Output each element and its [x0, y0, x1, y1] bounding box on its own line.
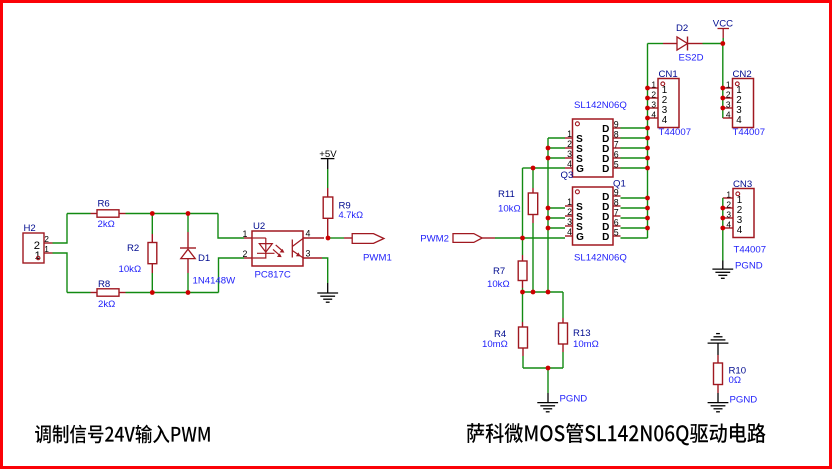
node Q3.2: [546, 146, 551, 151]
svg-text:PWM2: PWM2: [420, 234, 449, 245]
wire S bus: [548, 138, 565, 292]
svg-text:CN2: CN2: [733, 69, 752, 80]
svg-text:SL142N06Q: SL142N06Q: [574, 100, 627, 111]
svg-text:0Ω: 0Ω: [729, 375, 742, 386]
svg-text:8: 8: [614, 198, 619, 208]
svg-text:D: D: [602, 232, 609, 243]
svg-text:3: 3: [651, 100, 656, 110]
svg-text:10kΩ: 10kΩ: [498, 204, 521, 215]
wire VCC to CN2: [722, 44, 724, 119]
svg-text:PC817C: PC817C: [255, 270, 291, 281]
svg-text:6: 6: [614, 150, 619, 160]
connector CN2: [723, 69, 765, 138]
ground PGND2: [712, 261, 762, 279]
svg-text:CN1: CN1: [659, 69, 678, 80]
svg-text:2: 2: [567, 139, 572, 149]
svg-text:1N4148W: 1N4148W: [193, 276, 237, 287]
node Q3 drain 158: [645, 156, 650, 161]
power VCC: [713, 19, 733, 44]
op-amp U2 optocoupler PC817C: [242, 221, 324, 281]
svg-text:9: 9: [614, 120, 619, 130]
svg-text:U2: U2: [253, 221, 265, 232]
svg-text:10kΩ: 10kΩ: [119, 264, 142, 275]
svg-text:1: 1: [567, 129, 572, 139]
node rail R7: [520, 290, 525, 295]
svg-text:3: 3: [726, 100, 731, 110]
svg-text:4: 4: [736, 115, 742, 126]
svg-text:4: 4: [651, 110, 656, 120]
svg-text:2kΩ: 2kΩ: [98, 219, 115, 230]
node Q3 drain 138: [645, 136, 650, 141]
wire G link: [523, 168, 566, 238]
svg-text:3: 3: [726, 210, 731, 220]
node rail R11: [531, 290, 536, 295]
connector H2: [23, 223, 53, 263]
svg-text:7: 7: [614, 140, 619, 150]
svg-text:4.7kΩ: 4.7kΩ: [339, 210, 364, 220]
svg-text:H2: H2: [24, 223, 36, 234]
transistor Q3: [561, 100, 627, 181]
transistor Q1: [565, 178, 627, 263]
svg-text:2: 2: [567, 207, 572, 217]
ground GND: [317, 283, 338, 302]
node CN1.98: [645, 96, 650, 101]
node CN2.88: [720, 86, 725, 91]
svg-text:CN3: CN3: [733, 179, 752, 190]
node Q1.1: [546, 206, 551, 211]
svg-text:3: 3: [567, 217, 572, 227]
resistor R6: [91, 199, 126, 231]
svg-text:4: 4: [567, 227, 572, 237]
port PWM1: [352, 234, 392, 264]
wire H2.2 to top rail: [53, 214, 68, 244]
svg-text:R13: R13: [573, 328, 591, 339]
diode D1: [180, 214, 236, 293]
svg-text:T44007: T44007: [734, 244, 767, 255]
node Q3 drain 168: [645, 166, 650, 171]
diode D2: [648, 23, 723, 64]
svg-text:4: 4: [726, 220, 731, 230]
svg-text:10mΩ: 10mΩ: [573, 339, 599, 350]
resistor R4: [482, 292, 528, 368]
svg-text:2kΩ: 2kΩ: [98, 299, 115, 310]
node bottom-rail R2: [150, 290, 155, 295]
svg-text:10mΩ: 10mΩ: [482, 339, 508, 350]
node CN1.88: [645, 86, 650, 91]
node CN2.108: [720, 106, 725, 111]
resistor R2: [119, 214, 157, 293]
svg-text:4: 4: [306, 229, 311, 239]
svg-text:4: 4: [662, 115, 668, 126]
ground PGND3 top: [708, 334, 729, 355]
node gate G1: [520, 236, 525, 241]
wire H2.1 to bottom rail: [53, 253, 68, 293]
svg-text:D1: D1: [198, 253, 210, 264]
svg-text:8: 8: [614, 130, 619, 140]
svg-text:T44007: T44007: [733, 127, 766, 138]
svg-text:Q3: Q3: [561, 170, 574, 181]
svg-text:1: 1: [242, 229, 247, 239]
wire D bus: [621, 44, 648, 239]
wire rail to U2.2: [219, 258, 245, 293]
svg-text:2: 2: [726, 90, 731, 100]
svg-text:R7: R7: [493, 266, 505, 277]
wire U2.3 to GND: [322, 258, 328, 283]
connector CN1: [648, 69, 692, 138]
ground PGND1: [537, 368, 587, 412]
svg-text:ES2D: ES2D: [679, 52, 704, 63]
node Q1 drain 228: [645, 226, 650, 231]
wire top rail: [67, 213, 218, 215]
svg-text:G: G: [576, 164, 584, 175]
svg-text:2: 2: [651, 90, 656, 100]
caption 调制信号24V输入PWM: [35, 425, 210, 444]
svg-text:4: 4: [726, 110, 731, 120]
node shunt gnd: [546, 366, 551, 371]
node CN2.98: [720, 96, 725, 101]
svg-text:2: 2: [726, 200, 731, 210]
node Q1 drain 208: [645, 206, 650, 211]
node CN3.228: [720, 226, 725, 231]
svg-text:3: 3: [306, 249, 311, 259]
resistor R7: [487, 238, 527, 292]
svg-text:R8: R8: [98, 279, 110, 290]
svg-text:1: 1: [651, 80, 656, 90]
svg-text:3: 3: [567, 149, 572, 159]
resistor R9: [323, 188, 363, 238]
node Q3 drain 128: [645, 126, 650, 131]
node Q3.3: [546, 156, 551, 161]
svg-text:PGND: PGND: [560, 394, 588, 405]
node CN1.108: [645, 106, 650, 111]
wire shunt bottom: [523, 367, 563, 369]
node CN3.208: [720, 206, 725, 211]
svg-text:PGND: PGND: [730, 394, 758, 405]
svg-text:D: D: [602, 164, 609, 175]
svg-text:2: 2: [242, 249, 247, 259]
node top-rail D1: [186, 211, 191, 216]
svg-text:PWM1: PWM1: [363, 252, 392, 263]
node PWM1 junction: [326, 236, 331, 241]
svg-text:SL142N06Q: SL142N06Q: [574, 252, 627, 263]
svg-text:T44007: T44007: [659, 127, 692, 138]
svg-text:Q1: Q1: [613, 178, 626, 189]
power +5V: [319, 149, 337, 188]
node CN1.118: [645, 116, 650, 121]
wire rail to U2.1: [218, 214, 244, 239]
resistor R13: [559, 292, 599, 368]
wire to PWM1: [330, 237, 353, 239]
svg-text:R11: R11: [498, 189, 515, 200]
node Q1.3: [546, 226, 551, 231]
node bottom-rail D1: [186, 290, 191, 295]
wire PWM2 to Q1.4: [495, 237, 565, 239]
svg-text:5: 5: [614, 228, 619, 238]
svg-text:1: 1: [726, 80, 731, 90]
node Q3 drain 148: [645, 146, 650, 151]
wire CN3 to PGND: [722, 198, 724, 261]
node rail S: [546, 290, 551, 295]
node VCC: [720, 41, 725, 46]
node top-rail R2: [150, 211, 155, 216]
svg-text:4: 4: [567, 159, 572, 169]
node R11 top: [531, 166, 536, 171]
svg-text:1: 1: [726, 190, 731, 200]
node CN3.218: [720, 216, 725, 221]
caption 萨科微MOS管SL142N06Q驱动电路: [467, 423, 766, 445]
port PWM2: [420, 234, 495, 245]
svg-text:1: 1: [567, 197, 572, 207]
ground PGND3: [708, 393, 758, 412]
wire bottom rail: [67, 292, 219, 294]
svg-text:R6: R6: [98, 199, 110, 210]
svg-text:10kΩ: 10kΩ: [487, 279, 510, 290]
node Q1.2: [546, 216, 551, 221]
svg-text:PGND: PGND: [735, 261, 763, 272]
svg-text:7: 7: [614, 208, 619, 218]
wire shunt rail: [523, 291, 564, 293]
resistor R10: [714, 355, 747, 393]
svg-text:6: 6: [614, 218, 619, 228]
resistor R11: [498, 168, 538, 292]
node Q1 drain 198: [645, 196, 650, 201]
resistor R8: [91, 279, 126, 310]
svg-text:R2: R2: [127, 243, 139, 254]
connector CN3: [723, 179, 766, 255]
svg-text:5: 5: [614, 160, 619, 170]
svg-text:4: 4: [737, 225, 743, 236]
svg-text:D2: D2: [676, 23, 688, 34]
svg-text:G: G: [576, 232, 584, 243]
node Q1 drain 218: [645, 216, 650, 221]
